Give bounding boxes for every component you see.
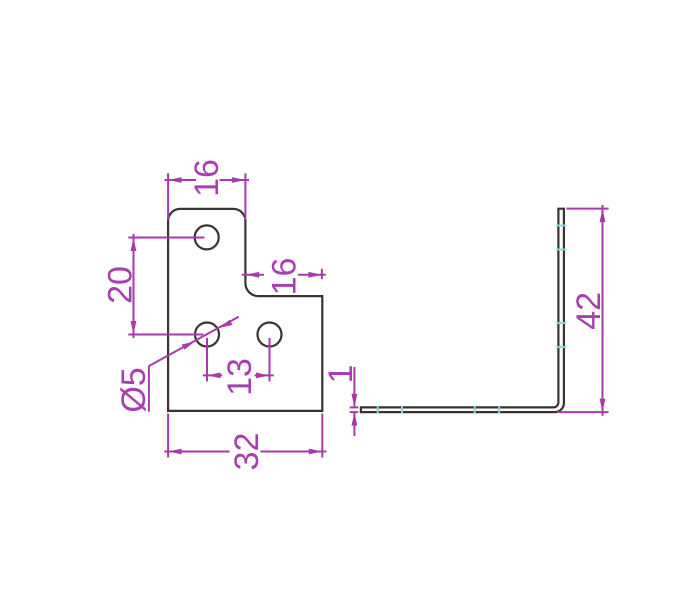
- arrow right: [232, 177, 246, 183]
- dim line: [602, 205, 604, 416]
- ext line right (from lower-right hole): [269, 338, 271, 381]
- svg-text:13: 13: [221, 358, 259, 396]
- cyan hole tangent tick (leg, hole1 right): [401, 406, 403, 414]
- arrow down (above, pointing to top edge): [352, 394, 358, 408]
- dim line: [133, 234, 135, 338]
- ext line left: [167, 414, 169, 458]
- arrow up: [600, 209, 606, 223]
- arrow up: [131, 238, 137, 252]
- cyan hole tangent tick (wall, bottom holes upper): [556, 322, 566, 324]
- dim line above: [353, 367, 355, 407]
- hole bottom-right (face): [258, 323, 282, 347]
- arrow left: [246, 272, 260, 278]
- arrow right: [256, 373, 270, 379]
- svg-text:1: 1: [322, 365, 360, 384]
- dim line left segment: [165, 179, 197, 181]
- ext line right: [244, 173, 246, 220]
- svg-text:16: 16: [266, 258, 304, 296]
- arrow at lower-left of circle pointing up-right: [182, 341, 195, 349]
- arrow at upper-right of circle pointing down-left: [219, 320, 232, 328]
- ext line top: [566, 208, 608, 210]
- arrow right: [309, 449, 323, 455]
- ext line bottom (to lower-left hole center): [128, 334, 203, 336]
- arrow up (below, pointing to bottom edge): [352, 412, 358, 426]
- svg-text:16: 16: [188, 159, 226, 197]
- plate outline (L-shaped face, rounded corners): [168, 209, 322, 411]
- dim line left segment: [242, 274, 264, 276]
- cyan hole tangent tick (leg, hole2 left): [474, 406, 476, 414]
- cyan hole tangent tick (wall, top hole lower): [556, 249, 566, 251]
- ext line bottom: [557, 411, 609, 413]
- cyan hole tangent tick (wall, bottom holes lower): [556, 346, 566, 348]
- arrow down: [600, 399, 606, 413]
- arrow left: [168, 449, 182, 455]
- dim line right segment: [261, 451, 327, 453]
- dim line left segment: [164, 451, 229, 453]
- hole top (face): [195, 225, 219, 249]
- dim line right segment: [255, 374, 274, 376]
- dim line right segment: [220, 179, 250, 181]
- ext line left: [167, 173, 169, 220]
- side profile outline: [361, 209, 564, 412]
- hole bottom-left (face): [195, 323, 219, 347]
- dim line left segment: [203, 374, 222, 376]
- ext line right: [321, 414, 323, 458]
- ext line right stub: [321, 269, 323, 279]
- svg-text:Ø5: Ø5: [115, 367, 153, 412]
- dim line right segment: [298, 274, 326, 276]
- ext line left (from lower-left hole): [206, 338, 208, 381]
- svg-text:32: 32: [228, 433, 266, 471]
- svg-text:42: 42: [570, 292, 608, 330]
- leader underline (landing): [148, 366, 150, 412]
- cyan hole tangent tick (leg, hole2 right): [498, 406, 500, 414]
- svg-text:20: 20: [101, 266, 139, 304]
- cyan hole tangent tick (wall, top hole upper): [556, 225, 566, 227]
- ext tick bottom: [350, 411, 359, 413]
- dim line below: [353, 412, 355, 436]
- arrow down: [131, 321, 137, 335]
- leader diagonal line: [149, 317, 239, 366]
- cyan hole tangent tick (leg, hole1 left): [377, 406, 379, 414]
- ext tick top: [350, 406, 359, 408]
- arrow right: [308, 272, 322, 278]
- ext line top (to top hole center): [128, 237, 204, 239]
- arrow left: [168, 177, 182, 183]
- arrow left: [207, 373, 221, 379]
